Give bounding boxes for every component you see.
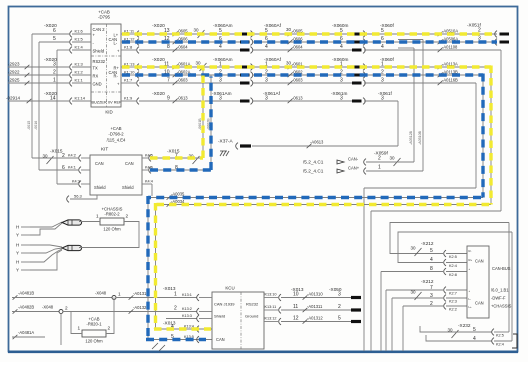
svg-text:-X048: -X048 <box>95 291 107 296</box>
KID left pins K1:6 K1:5 K1:4 K1:3 K1:2 K1:1 K1:14 <box>70 29 91 105</box>
svg-text:-A0132: -A0132 <box>133 305 147 310</box>
svg-text:-X212: -X212 <box>421 279 434 284</box>
svg-text:Shield: Shield <box>94 185 106 190</box>
svg-text:RX: RX <box>93 74 99 79</box>
wire X232-4 <box>426 335 512 347</box>
KCU pin K13:10 wire -A01310 to X050-3 <box>264 291 361 301</box>
svg-text:12: 12 <box>293 315 299 321</box>
connector X013 (pins 10,11,12) <box>291 287 304 292</box>
svg-text:K4:4: K4:4 <box>145 180 153 184</box>
svg-text:120 Ohm: 120 Ohm <box>103 227 121 232</box>
svg-text:/5.2_4.C1: /5.2_4.C1 <box>303 169 324 174</box>
svg-text:K2:5: K2:5 <box>496 334 504 338</box>
svg-text:8: 8 <box>430 266 433 272</box>
svg-text:4: 4 <box>340 44 343 50</box>
svg-text:0V REF: 0V REF <box>108 101 122 105</box>
svg-text:K2:5: K2:5 <box>449 255 457 259</box>
svg-text:CAN: CAN <box>95 161 104 166</box>
svg-text:-X37-A: -X37-A <box>218 139 233 144</box>
svg-text:7: 7 <box>430 285 433 291</box>
svg-text:+CHASSIS: +CHASSIS <box>491 304 512 309</box>
svg-text:CAN-: CAN- <box>348 157 359 162</box>
svg-text:-X060Am: -X060Am <box>213 23 233 28</box>
svg-text:-D795: -D795 <box>98 15 111 20</box>
CAN R- highlight blue path <box>122 74 483 340</box>
wire -0605 segment X060Af to X060m <box>252 29 352 37</box>
wire shield to KID K1:4 <box>57 49 70 51</box>
svg-text:K13:12: K13:12 <box>265 317 277 321</box>
svg-text:K2:2: K2:2 <box>449 307 457 311</box>
svg-text:K4:1: K4:1 <box>68 166 76 170</box>
svg-text:K1:6: K1:6 <box>75 29 84 34</box>
svg-text:-X232: -X232 <box>458 323 471 328</box>
svg-text:1: 1 <box>219 62 222 68</box>
svg-text:CAN: CAN <box>475 301 484 306</box>
svg-text:-A01108: -A01108 <box>442 45 458 50</box>
svg-text:-X020: -X020 <box>152 91 165 97</box>
svg-text:-0604: -0604 <box>292 45 303 50</box>
svg-text:RS232: RS232 <box>93 59 106 64</box>
wire KIT CAN+ to X015-7 <box>142 67 203 161</box>
svg-text:K1:9: K1:9 <box>124 96 133 101</box>
svg-text:CAN-BUS: CAN-BUS <box>492 266 511 271</box>
twisted pair leads H/Y <box>16 225 30 273</box>
svg-text:-D798-2: -D798-2 <box>108 132 124 137</box>
connector X013 (pins 4,5) <box>163 321 176 341</box>
connector X061m (pin 3) <box>331 91 365 104</box>
wire -A0510A to X051f-2 <box>364 29 497 37</box>
svg-text:-02914: -02914 <box>6 96 21 101</box>
wire -0613 segment KID to X060Am <box>139 96 240 104</box>
svg-text:K2:4: K2:4 <box>496 343 504 347</box>
off-page reference /5.2_4.C1 CAN- <box>303 157 359 165</box>
connector X060f (pins 5,6,4) <box>380 23 395 50</box>
svg-text:-A0613: -A0613 <box>310 140 324 145</box>
connector X232 (pins 5,4) <box>448 323 477 342</box>
junction node X048 pin 1 <box>95 291 121 300</box>
wire -A0481A stub <box>12 330 45 339</box>
unit U2 KIT +CAB -D798-2 <box>90 126 142 195</box>
svg-text:K1:1: K1:1 <box>75 78 84 83</box>
KCU pin K13:12 wire -A01312 to X050-5 <box>264 315 361 325</box>
svg-text:-X048: -X048 <box>42 305 54 310</box>
svg-text:-A01312: -A01312 <box>307 315 323 320</box>
connector X060m (pins 5,6,4) <box>332 23 365 53</box>
svg-text:GND: GND <box>93 82 102 87</box>
wire -0602 segment X060Af to X060m <box>252 70 352 78</box>
svg-text:-0613: -0613 <box>292 96 303 101</box>
svg-text:+CAB: +CAB <box>110 126 121 131</box>
svg-text:-0603: -0603 <box>177 78 188 83</box>
wire R820-1 pin1 to X048-2 <box>71 312 82 334</box>
svg-text:K2:4: K2:4 <box>449 264 457 268</box>
svg-text:11: 11 <box>293 304 298 310</box>
wire -A0131 to X013-1 <box>116 291 197 300</box>
svg-text:1: 1 <box>378 165 381 171</box>
svg-text:-DWF-F: -DWF-F <box>491 296 506 301</box>
svg-text:K1:8: K1:8 <box>124 45 133 50</box>
wire X020-5 to KID K1:5 <box>39 41 70 43</box>
svg-text:30: 30 <box>286 61 292 66</box>
svg-text:BUZZER: BUZZER <box>92 101 107 105</box>
svg-text:-A0510B: -A0510B <box>418 130 422 145</box>
svg-text:-2925: -2925 <box>8 78 20 83</box>
connector X020 (pins 3,2,1) <box>44 57 57 84</box>
svg-text:K13:1: K13:1 <box>182 293 192 297</box>
connector X060m (pins 1,2,3) <box>332 57 365 86</box>
svg-text:CAN J1939: CAN J1939 <box>214 302 235 307</box>
svg-text:-0015: -0015 <box>27 121 31 130</box>
wire -A0506A to X051f-3 <box>364 37 497 45</box>
svg-text:-A0481A: -A0481A <box>18 330 34 335</box>
svg-text:30: 30 <box>390 156 396 161</box>
svg-text:-R802-2: -R802-2 <box>104 212 120 217</box>
svg-text:K1:4: K1:4 <box>75 45 84 50</box>
wire X048-2 drop <box>60 314 62 346</box>
svg-text:K13:2: K13:2 <box>182 307 192 311</box>
bracket symbol <box>512 334 517 348</box>
svg-text:6: 6 <box>381 36 384 42</box>
wire -0605 segment KID to X060Am <box>139 29 240 37</box>
svg-text:-2922: -2922 <box>8 70 20 75</box>
svg-text:Y: Y <box>16 233 19 238</box>
junction node X048 pin 2 <box>42 305 68 314</box>
svg-text:4: 4 <box>430 257 433 263</box>
wire -0602A segment KID to X060Am <box>139 70 240 78</box>
svg-text:5: 5 <box>430 248 433 254</box>
svg-text:-0604: -0604 <box>177 45 188 50</box>
wire -A01108 <box>364 45 501 352</box>
svg-text:30: 30 <box>196 61 202 66</box>
svg-text:4: 4 <box>219 44 222 50</box>
svg-text:-X015: -X015 <box>167 149 180 154</box>
svg-text:-0613: -0613 <box>177 96 188 101</box>
svg-text:KID: KID <box>105 110 112 115</box>
svg-text:5: 5 <box>338 315 341 321</box>
svg-text:-0016: -0016 <box>34 121 38 130</box>
gauge mark 30 row11 <box>196 61 207 72</box>
svg-text:2: 2 <box>65 306 68 311</box>
svg-text:K4:2: K4:2 <box>68 154 76 158</box>
svg-text:4: 4 <box>381 44 384 50</box>
svg-text:-A01311: -A01311 <box>307 304 323 309</box>
wire -A0132 to X013-2 <box>63 305 197 314</box>
svg-text:1: 1 <box>96 214 99 219</box>
label CAN-BUS <box>492 266 511 271</box>
svg-text:2: 2 <box>108 326 111 331</box>
svg-text:-A01310: -A01310 <box>307 291 323 296</box>
X212 pins K2:5 K2:4 K2:8 <box>444 250 467 277</box>
KCU pin K13:1 <box>182 293 212 301</box>
svg-text:K1:3: K1:3 <box>75 62 84 67</box>
wire -2925 <box>8 78 70 86</box>
wire -0604 segment KID to X060Am <box>139 45 240 53</box>
svg-text:-A0116B: -A0116B <box>442 78 458 83</box>
wire X212-7 riser <box>386 290 443 351</box>
svg-text:-A0131: -A0131 <box>133 291 147 296</box>
wire label -A0034 <box>167 199 185 207</box>
gauge mark 30 X059f <box>390 156 401 167</box>
svg-text:KCU: KCU <box>225 286 234 291</box>
wire X212-8 riser <box>381 272 443 352</box>
svg-text:K1:14: K1:14 <box>75 96 86 101</box>
KID right pins K1:11 K1:12 K1:8 K1:13 K1:10 K1:7 K1:9 <box>121 29 139 105</box>
wire -A0113A CAN high <box>156 62 492 330</box>
svg-text:6: 6 <box>53 28 56 34</box>
svg-text:Y: Y <box>16 268 19 273</box>
svg-text:K2:7: K2:7 <box>449 291 457 295</box>
KCU pin K13:4 CAN high <box>184 325 199 333</box>
shield stub 56.3 <box>67 194 97 203</box>
svg-text:-X060Am: -X060Am <box>213 57 233 62</box>
wire -A0613 to X37-A <box>252 101 398 148</box>
svg-text:Ground: Ground <box>245 314 258 319</box>
svg-text:8: 8 <box>167 44 170 50</box>
connector X020 (pin 14) <box>44 91 57 102</box>
svg-text:-X013: -X013 <box>163 321 176 326</box>
twisted pair splice 1 <box>30 220 82 235</box>
svg-text:K2:3: K2:3 <box>449 299 457 303</box>
wire label -0602B <box>207 118 211 130</box>
svg-text:3: 3 <box>219 96 222 102</box>
svg-text:K2:8: K2:8 <box>449 273 457 277</box>
svg-text:H: H <box>16 260 19 265</box>
svg-text:/5.2_4.C1: /5.2_4.C1 <box>303 160 324 165</box>
svg-text:1: 1 <box>78 326 81 331</box>
wire -A0481B <box>12 291 112 300</box>
wire -0603 segment X060Af to X060m <box>252 78 352 86</box>
svg-text:5: 5 <box>381 28 384 34</box>
KCU pin K13:2 <box>182 307 212 315</box>
svg-text:2: 2 <box>338 304 341 310</box>
KIT CAN+ highlight yellow <box>150 69 203 159</box>
wire splice1 to R802-2 pin1 <box>79 221 100 223</box>
connector X051f (pins 2,3) <box>467 23 509 46</box>
off-page reference /5.2_4.C1 CAN+ <box>303 166 360 174</box>
svg-text:R-: R- <box>114 74 119 79</box>
connector X212 (pins 7,3,2) <box>411 279 434 307</box>
svg-text:RS232: RS232 <box>246 302 259 307</box>
svg-text:-A0512B: -A0512B <box>409 130 413 145</box>
svg-text:-R820-1: -R820-1 <box>86 322 102 327</box>
svg-text:-0603: -0603 <box>292 78 303 83</box>
svg-text:3: 3 <box>340 96 343 102</box>
svg-text:3: 3 <box>219 78 222 84</box>
KCU pin K13:11 wire -A01311 to X050-2 <box>264 304 361 314</box>
wire bus to X212-5 <box>390 223 509 254</box>
svg-text:L-: L- <box>469 297 472 301</box>
connector X020 right (pins 11,10,7) <box>152 57 170 84</box>
svg-text:/6.0_1.B1: /6.0_1.B1 <box>491 288 509 293</box>
gauge mark 30 row5 <box>286 27 292 32</box>
resistor R802-2 120 Ohm +CHASSIS <box>96 207 129 232</box>
connector X060f (pins 1,2,3) <box>380 57 395 84</box>
twisted pair splice 2 <box>30 245 82 270</box>
svg-text:1: 1 <box>174 292 177 298</box>
svg-text:3: 3 <box>340 78 343 84</box>
svg-text:K13:3: K13:3 <box>182 314 192 318</box>
wire -2923 <box>8 62 70 70</box>
wire -A0116B <box>364 78 476 352</box>
connector X212 (pins 5,4,8) <box>411 241 434 272</box>
connector X020 right (pin 9) <box>152 91 170 102</box>
ground chassis at X37-A <box>220 151 229 156</box>
wire R820-1 pin2 to X048-1 <box>106 298 114 334</box>
svg-text:K13:10: K13:10 <box>265 293 277 297</box>
wire -0604 segment X060Af to X060m <box>252 45 352 53</box>
svg-text:CAN: CAN <box>125 161 134 166</box>
CAN R+ highlight yellow path <box>122 66 491 330</box>
wire shield vertical <box>56 50 58 184</box>
svg-text:K1:5: K1:5 <box>75 37 84 42</box>
wire -0606 segment KID to X060Am <box>139 37 240 45</box>
svg-text:H: H <box>16 243 19 248</box>
connector X060Am (pins 1,2,3) <box>213 57 253 86</box>
svg-text:56.3: 56.3 <box>74 194 83 199</box>
wire label -A0035 <box>167 192 185 200</box>
svg-text:KIT: KIT <box>101 147 108 152</box>
wire X232-5 <box>420 326 509 338</box>
CAN L+ highlight yellow top <box>122 32 497 35</box>
wire CAN2+ vertical to X015-2 <box>27 34 32 158</box>
svg-text:5: 5 <box>53 36 56 42</box>
svg-text:120 Ohm: 120 Ohm <box>85 339 103 344</box>
wire shield to KIT K4:3 <box>57 180 90 188</box>
svg-text:5: 5 <box>219 28 222 34</box>
svg-text:-X013: -X013 <box>163 286 176 291</box>
svg-text:L-: L- <box>114 41 118 46</box>
wire riser to X232-5 <box>508 223 510 333</box>
unit U1 KID +CAB -D795 <box>91 10 122 115</box>
wire -2922 <box>8 70 70 78</box>
wire -A0512B CAN- up <box>366 48 414 162</box>
svg-text:4: 4 <box>265 44 268 50</box>
KIT CAN- highlight blue <box>150 77 211 171</box>
svg-text:CAN: CAN <box>216 337 225 342</box>
svg-text:-A0482B: -A0482B <box>18 305 34 310</box>
connector X020 (pins 6,5) <box>44 23 57 42</box>
svg-text:3: 3 <box>338 291 341 297</box>
svg-text:1: 1 <box>118 292 121 297</box>
svg-text:-X015: -X015 <box>50 149 63 154</box>
resistor R820-1 120 Ohm +CAB <box>78 317 111 344</box>
svg-text:10: 10 <box>293 291 299 297</box>
wire X212-2 riser <box>403 306 443 351</box>
svg-text:Shield: Shield <box>122 185 134 190</box>
shield hatch marks <box>152 343 165 351</box>
unit U3 KCU <box>212 286 264 350</box>
wire -0606 segment X060Af to X060m <box>252 37 352 45</box>
svg-text:Shield: Shield <box>214 314 225 319</box>
svg-text:/115_4.E4: /115_4.E4 <box>107 138 126 143</box>
wire -02914 <box>6 96 70 104</box>
svg-text:-X059f: -X059f <box>374 151 389 156</box>
connector X061Am (pin 3) <box>212 91 253 104</box>
wire KIT shield right K4:4 <box>142 180 153 197</box>
wire -0601 segment X060Af to X060m <box>252 62 352 70</box>
gauge mark 30 row13 <box>194 28 205 39</box>
connector X050 (pins 3,2,5) <box>329 287 342 292</box>
wire bus to X212-4 <box>398 232 512 263</box>
svg-text:CAN 2: CAN 2 <box>93 27 106 32</box>
svg-text:H: H <box>16 225 19 230</box>
KCU pin K13:3 shield <box>166 314 212 322</box>
connector X060Af (pins 1,2,3) <box>264 57 282 84</box>
wire riser to X232-4 <box>511 232 513 341</box>
svg-text:CAN+: CAN+ <box>348 166 360 171</box>
svg-text:30: 30 <box>194 28 200 33</box>
label /6.0_1.B1 -DWF-F +CHASSIS <box>491 288 512 309</box>
svg-text:30: 30 <box>411 246 417 251</box>
svg-text:L+: L+ <box>469 305 473 309</box>
svg-text:-X212: -X212 <box>421 241 434 246</box>
wire X015-2 to KIT <box>32 154 90 162</box>
svg-text:-2923: -2923 <box>8 62 20 67</box>
wire -A0482B <box>12 305 59 314</box>
connector X015 right (pins 7,8) <box>167 149 200 172</box>
svg-text:K1:2: K1:2 <box>75 70 84 75</box>
connector X060Am (pins 5,6,4) <box>213 23 253 53</box>
connector X015 left (pins 2,6) <box>43 149 66 172</box>
svg-text:3: 3 <box>430 293 433 299</box>
wire X212-3 riser <box>392 298 443 351</box>
svg-text:-A0035: -A0035 <box>171 192 185 197</box>
svg-text:2: 2 <box>174 306 177 312</box>
svg-text:K4:3: K4:3 <box>72 180 80 184</box>
svg-text:CAN: CAN <box>475 259 484 264</box>
svg-text:-A0481B: -A0481B <box>18 291 34 296</box>
wire -0603 segment KID to X060Am <box>139 78 240 86</box>
svg-text:2: 2 <box>378 156 381 162</box>
connector X059f (pins 2,1) <box>364 151 389 175</box>
svg-text:Y: Y <box>16 251 19 256</box>
gauge mark 30 row1 <box>286 61 292 66</box>
wire X015-6 to KIT <box>39 166 90 174</box>
svg-text:30: 30 <box>286 27 292 32</box>
connector X013 (pins 1,2) <box>163 286 177 312</box>
svg-text:-X061Am: -X061Am <box>212 91 232 96</box>
connector X020 right (pins 13,12,8) <box>152 23 170 50</box>
unit U4 DWF-F CAN-BUS node <box>467 246 489 318</box>
svg-text:2: 2 <box>430 301 433 307</box>
wire -A0113B CAN low <box>148 70 483 340</box>
wire -0601A segment KID to X060Am <box>139 62 240 70</box>
wire CAN2- vertical to X015-6 <box>34 42 39 170</box>
wire -0613 segment X060Af to X060m <box>252 96 352 104</box>
connector X060Af (pins 5,6,4) <box>264 23 282 50</box>
wire label -0601B <box>198 118 202 130</box>
svg-text:30: 30 <box>411 290 417 295</box>
svg-text:K13:11: K13:11 <box>265 305 277 309</box>
wire -A0510B CAN+ up <box>366 40 423 172</box>
X212 pins K2:7 K2:3 K2:2 <box>444 287 467 312</box>
wire X020-6 to KID K1:6 <box>32 33 70 35</box>
connector X061Af (pin 3) <box>263 91 281 102</box>
svg-text:TX: TX <box>93 66 99 71</box>
svg-text:R+: R+ <box>469 258 473 262</box>
connector X37-A <box>218 139 251 150</box>
wire KIT CAN- to X015-8 <box>142 75 211 173</box>
connector X061f (pin 3) <box>378 91 393 102</box>
wire R802-2 pin2 loop to splice2 <box>79 222 139 248</box>
svg-text:2: 2 <box>126 214 129 219</box>
svg-text:K1:7: K1:7 <box>124 78 133 83</box>
CAN L- highlight blue top <box>122 40 497 43</box>
svg-text:Shield: Shield <box>93 49 105 54</box>
KCU pin K13:5 CAN low <box>184 335 199 343</box>
svg-text:R-: R- <box>469 249 472 253</box>
